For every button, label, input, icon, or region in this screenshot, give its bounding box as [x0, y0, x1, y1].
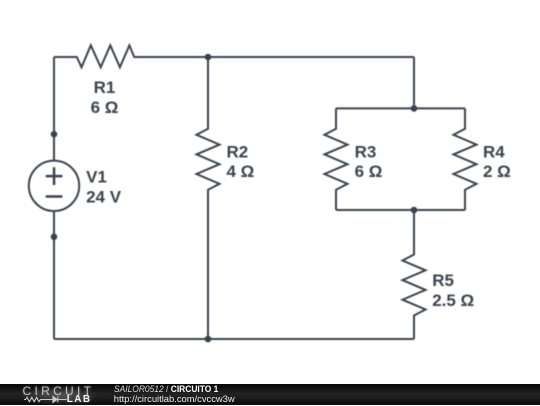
svg-text:R1: R1 [94, 78, 116, 97]
svg-text:R3: R3 [355, 143, 377, 162]
svg-text:2 Ω: 2 Ω [483, 162, 511, 181]
svg-text:R5: R5 [432, 271, 454, 290]
svg-text:R4: R4 [483, 142, 505, 161]
svg-text:6 Ω: 6 Ω [355, 162, 383, 181]
svg-text:2.5 Ω: 2.5 Ω [432, 291, 474, 310]
svg-text:24 V: 24 V [86, 187, 122, 206]
svg-text:6 Ω: 6 Ω [91, 98, 119, 117]
svg-text:V1: V1 [86, 168, 107, 187]
svg-text:4 Ω: 4 Ω [227, 162, 255, 181]
svg-text:R2: R2 [227, 142, 249, 161]
